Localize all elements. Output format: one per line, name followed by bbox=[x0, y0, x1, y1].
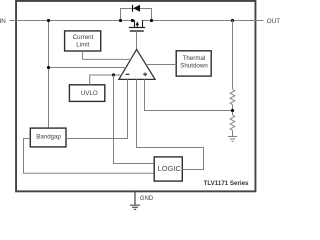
wire OUT rail bbox=[143, 20, 264, 22]
node dot reference branch bbox=[47, 66, 50, 69]
wire gate lead from error amp output to FET gate bbox=[136, 31, 138, 50]
box Current Limit bbox=[65, 31, 101, 51]
wire UVLO branch down to LOGIC bbox=[114, 75, 155, 164]
resistor R2 feedback lower bbox=[230, 115, 235, 130]
svg-text:OUT: OUT bbox=[267, 18, 280, 25]
transistor Q1 pass PMOS with body arrow and gate plate bbox=[129, 20, 145, 31]
chip boundary box bbox=[16, 1, 255, 191]
wire error amp middle input to LOGIC output bbox=[137, 79, 204, 169]
resistor R1 feedback upper bbox=[230, 90, 235, 105]
wire GND stub bbox=[134, 192, 136, 206]
node dot UVLO line branch bbox=[112, 73, 115, 76]
wire R2 to ground bbox=[232, 130, 234, 136]
svg-text:Bandgap: Bandgap bbox=[36, 133, 61, 140]
wire Bandgap output to error amp inverting input bbox=[66, 79, 128, 138]
wire feedback from divider tap to error amp non-inverting input bbox=[145, 79, 233, 110]
box Bandgap bbox=[30, 128, 66, 147]
svg-text:GND: GND bbox=[140, 196, 154, 202]
node dot IN rail bandgap branch bbox=[47, 19, 50, 22]
op-amp inverting input marker − bbox=[126, 73, 130, 75]
wire IN rail bbox=[10, 20, 136, 22]
diode body diode of pass FET bbox=[133, 5, 141, 12]
svg-text:IN: IN bbox=[0, 18, 6, 25]
wire body diode loop bbox=[121, 9, 152, 21]
op-amp non-inverting input marker + bbox=[143, 73, 147, 77]
box LOGIC bbox=[154, 157, 182, 181]
wire between R1 and tap bbox=[232, 105, 234, 116]
wire divider top bbox=[232, 21, 234, 90]
ground GND symbol bbox=[130, 205, 140, 209]
wire Current Limit to error amp bbox=[83, 51, 132, 59]
node dot OUT rail divider branch bbox=[231, 19, 234, 22]
node dot pass FET source junction bbox=[131, 19, 134, 22]
wire Bandgap left wrap to LOGIC bbox=[24, 139, 155, 174]
box Thermal Shutdown bbox=[176, 51, 211, 76]
svg-text:Limit: Limit bbox=[76, 42, 89, 49]
ground divider ground bbox=[228, 137, 237, 142]
node dot OUT rail / diode junction bbox=[150, 19, 153, 22]
wire UVLO to error amp bbox=[90, 75, 123, 85]
svg-text:UVLO: UVLO bbox=[81, 90, 98, 97]
svg-text:LOGIC: LOGIC bbox=[158, 164, 182, 173]
svg-text:Thermal: Thermal bbox=[183, 55, 206, 62]
box UVLO bbox=[69, 85, 104, 102]
svg-text:TLV1171 Series: TLV1171 Series bbox=[204, 180, 250, 187]
wire bandgap vertical from IN rail bbox=[48, 21, 50, 129]
svg-text:Shutdown: Shutdown bbox=[180, 63, 208, 70]
node dot IN rail / diode junction bbox=[119, 19, 122, 22]
wire reference to error amp bbox=[49, 67, 127, 69]
op-amp U1 error amplifier bbox=[119, 49, 155, 79]
wire error amp to Thermal Shutdown bbox=[146, 64, 176, 66]
svg-text:Current: Current bbox=[73, 34, 94, 41]
node dot feedback tap bbox=[231, 109, 234, 112]
